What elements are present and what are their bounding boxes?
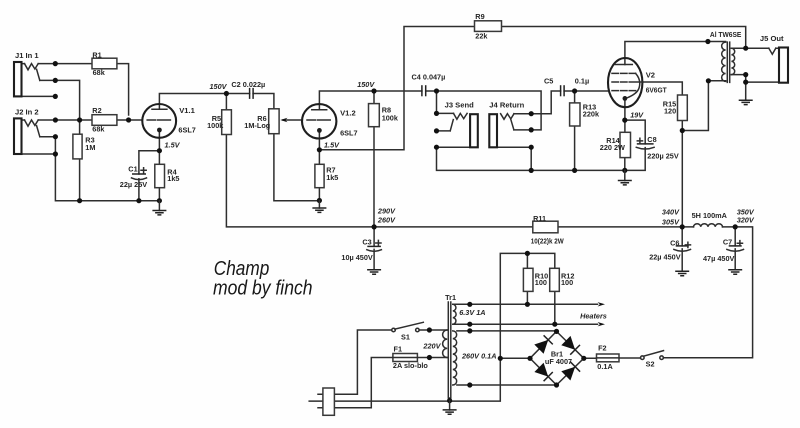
svg-text:6V6GT: 6V6GT [646,85,667,94]
svg-text:R9: R9 [475,12,484,21]
svg-text:J3 Send: J3 Send [445,100,474,109]
svg-text:S1: S1 [401,332,410,341]
svg-text:150V: 150V [210,82,228,91]
svg-text:340V: 340V [662,208,680,217]
svg-text:260V 0.1A: 260V 0.1A [461,352,496,361]
svg-text:C6: C6 [670,238,679,247]
svg-text:22µ 25V: 22µ 25V [120,180,147,189]
svg-text:68k: 68k [93,68,106,77]
svg-text:J5 Out: J5 Out [760,34,784,43]
svg-text:Al TW6SE: Al TW6SE [710,30,742,39]
svg-text:C4 0.047µ: C4 0.047µ [412,72,446,81]
svg-text:1k5: 1k5 [167,174,179,183]
svg-text:6SL7: 6SL7 [178,126,195,135]
svg-text:22µ 450V: 22µ 450V [649,252,681,261]
svg-text:C3: C3 [362,238,371,247]
svg-text:220µ 25V: 220µ 25V [647,151,679,160]
svg-text:1.5V: 1.5V [165,140,181,149]
svg-text:6.3V 1A: 6.3V 1A [459,308,485,317]
svg-text:V1.2: V1.2 [340,109,356,118]
svg-text:C2 0.022µ: C2 0.022µ [231,80,265,89]
svg-text:mod by finch: mod by finch [213,277,313,300]
svg-text:2A slo-blo: 2A slo-blo [393,361,429,370]
svg-text:V2: V2 [646,70,655,79]
svg-text:J4 Return: J4 Return [489,100,524,109]
svg-text:260V: 260V [377,216,396,225]
svg-text:220k: 220k [583,110,600,119]
svg-text:1k5: 1k5 [326,173,338,182]
svg-text:F2: F2 [598,343,607,352]
svg-text:Tr1: Tr1 [445,293,456,302]
svg-text:5H 100mA: 5H 100mA [692,211,728,220]
svg-text:V1.1: V1.1 [179,106,195,115]
svg-text:R2: R2 [92,106,101,115]
svg-text:R11: R11 [533,214,546,223]
svg-text:150V: 150V [357,80,375,89]
svg-text:1M: 1M [85,143,95,152]
svg-text:J2 In 2: J2 In 2 [15,108,39,117]
svg-text:C7: C7 [723,238,732,247]
svg-text:220 2W: 220 2W [600,143,625,152]
svg-text:220V: 220V [422,341,441,350]
svg-text:22k: 22k [475,31,488,40]
svg-text:C8: C8 [647,135,656,144]
svg-text:0.1A: 0.1A [597,362,613,371]
svg-text:6SL7: 6SL7 [340,128,357,137]
svg-text:100k: 100k [382,114,399,123]
svg-text:120: 120 [664,106,676,115]
svg-text:uF 4007: uF 4007 [545,357,572,366]
svg-text:290V: 290V [377,206,396,215]
svg-text:100: 100 [535,278,547,287]
svg-text:10(22)k 2W: 10(22)k 2W [531,237,564,246]
svg-text:C1: C1 [128,165,137,174]
svg-text:F1: F1 [394,344,403,353]
svg-text:J1 In 1: J1 In 1 [15,51,39,60]
svg-text:68k: 68k [92,125,105,134]
svg-text:19V: 19V [630,111,644,120]
svg-text:S2: S2 [646,360,655,369]
svg-text:1M-Log: 1M-Log [244,121,270,130]
svg-text:1.5V: 1.5V [324,141,340,150]
svg-text:100k: 100k [207,121,224,130]
svg-text:305V: 305V [662,218,680,227]
svg-text:Heaters: Heaters [580,312,607,321]
svg-text:10µ 450V: 10µ 450V [341,253,373,262]
svg-text:100: 100 [561,278,573,287]
svg-text:320V: 320V [737,216,755,225]
svg-text:0.1µ: 0.1µ [575,77,589,86]
svg-text:47µ 450V: 47µ 450V [703,254,735,263]
svg-text:C5: C5 [544,77,553,86]
svg-text:R1: R1 [92,51,101,60]
